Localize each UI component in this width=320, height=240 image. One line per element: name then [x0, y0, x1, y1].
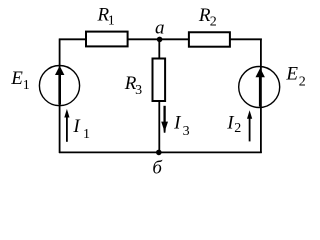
- resistor R3: [153, 59, 166, 102]
- svg-text:E2: E2: [285, 64, 305, 90]
- svg-text:б: б: [152, 158, 163, 179]
- wire top right segment: [229, 38, 262, 40]
- source E1 arrow: [55, 66, 64, 105]
- current arrow I2: [247, 110, 252, 141]
- resistor R2: [189, 32, 230, 46]
- wire top left segment: [59, 38, 90, 40]
- source E2 arrow: [256, 68, 265, 107]
- source E2 circle: [239, 67, 280, 108]
- wire left branch vertical: [59, 39, 61, 154]
- svg-text:I1: I1: [72, 116, 90, 142]
- wire bottom: [59, 151, 262, 153]
- wire middle branch lower: [158, 100, 160, 152]
- current arrow I1: [64, 109, 69, 142]
- svg-text:R3: R3: [124, 73, 142, 98]
- source E1 circle: [39, 66, 79, 106]
- wire right branch vertical: [260, 39, 262, 154]
- wire middle branch upper: [158, 39, 160, 60]
- svg-text:I3: I3: [173, 113, 190, 139]
- node b dot: [156, 150, 162, 156]
- svg-text:a: a: [155, 17, 165, 38]
- resistor R1: [86, 32, 128, 47]
- svg-text:R2: R2: [198, 5, 217, 30]
- svg-text:E1: E1: [10, 68, 30, 93]
- node a dot: [157, 37, 163, 43]
- svg-text:I2: I2: [226, 113, 241, 136]
- svg-text:R1: R1: [97, 4, 115, 28]
- current arrow I3 (downward): [161, 106, 168, 133]
- wire top middle segment: [126, 38, 190, 40]
